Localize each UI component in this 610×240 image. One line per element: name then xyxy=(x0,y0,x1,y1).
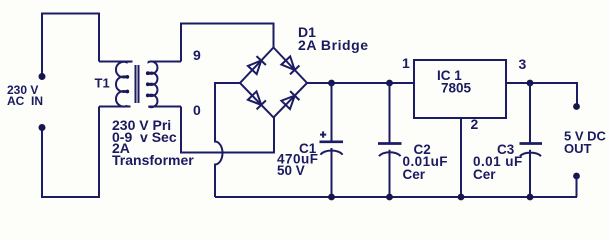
capacitor C3 lead xyxy=(529,83,531,197)
capacitor C2 lead xyxy=(389,83,391,197)
svg-text:T1: T1 xyxy=(95,76,110,91)
diode D1b top-right xyxy=(281,56,299,74)
wire: ground rail xyxy=(215,196,577,198)
transformer T1 secondary winding xyxy=(149,61,182,107)
node: primary winding cusp blobs xyxy=(125,75,129,79)
capacitor C1 plates xyxy=(320,140,344,143)
bridge D1 diamond xyxy=(240,48,307,118)
svg-text:OUT: OUT xyxy=(564,141,592,156)
wire: DC output bottom to ground rail xyxy=(576,176,578,197)
node: AC terminal top xyxy=(39,73,46,80)
svg-text:7805: 7805 xyxy=(441,81,472,96)
node: C2 junction top xyxy=(386,80,393,87)
node: secondary winding cusp blobs xyxy=(146,71,150,75)
node: C2 junction bottom xyxy=(386,194,393,201)
node: C3 junction top xyxy=(527,80,534,87)
svg-text:2A Bridge: 2A Bridge xyxy=(298,37,369,53)
node: C1 junction top xyxy=(328,80,335,87)
wire: AC input upper left loop xyxy=(42,14,99,74)
svg-text:Cer: Cer xyxy=(403,167,426,182)
svg-text:9: 9 xyxy=(193,47,201,63)
wire: bridge minus to ground rail with hop xyxy=(215,83,240,197)
wire: secondary 9 tap to bridge top xyxy=(181,24,274,62)
svg-text:Transformer: Transformer xyxy=(112,152,194,168)
capacitor C2 plates xyxy=(378,142,402,145)
wire: IC pin 3 output rail xyxy=(506,83,577,106)
node: pin 2 ground junction xyxy=(458,194,465,201)
node: C1 junction bottom xyxy=(328,194,335,201)
svg-text:Cer: Cer xyxy=(473,167,496,182)
wire: secondary 0 tap to bridge bottom xyxy=(181,107,274,153)
svg-text:AC IN: AC IN xyxy=(7,94,43,108)
diode D1c bottom-left xyxy=(248,91,266,109)
svg-text:0: 0 xyxy=(193,102,201,118)
diode D1d bottom-right xyxy=(281,91,299,109)
diode D1a top-left xyxy=(248,56,266,74)
transformer T1 primary winding xyxy=(99,62,133,107)
capacitor C1 polarity plus xyxy=(320,131,326,137)
svg-text:50 V: 50 V xyxy=(277,163,305,178)
node: DC output terminal top xyxy=(573,103,580,110)
node: C3 junction bottom xyxy=(527,194,534,201)
wire: bridge plus rail to IC pin 1 xyxy=(307,82,414,84)
wire: AC input lower left loop xyxy=(42,107,99,198)
node: DC output terminal bottom xyxy=(573,173,580,180)
svg-text:1: 1 xyxy=(402,55,410,71)
svg-text:3: 3 xyxy=(519,56,527,72)
capacitor C3 plates xyxy=(520,142,543,145)
wire: IC pin 2 to ground xyxy=(460,118,462,197)
capacitor C1 lead xyxy=(331,83,333,197)
transformer core xyxy=(136,65,139,103)
svg-text:2: 2 xyxy=(471,116,479,132)
node: AC terminal bottom xyxy=(39,124,46,131)
IC U1 7805 regulator box xyxy=(414,60,506,118)
